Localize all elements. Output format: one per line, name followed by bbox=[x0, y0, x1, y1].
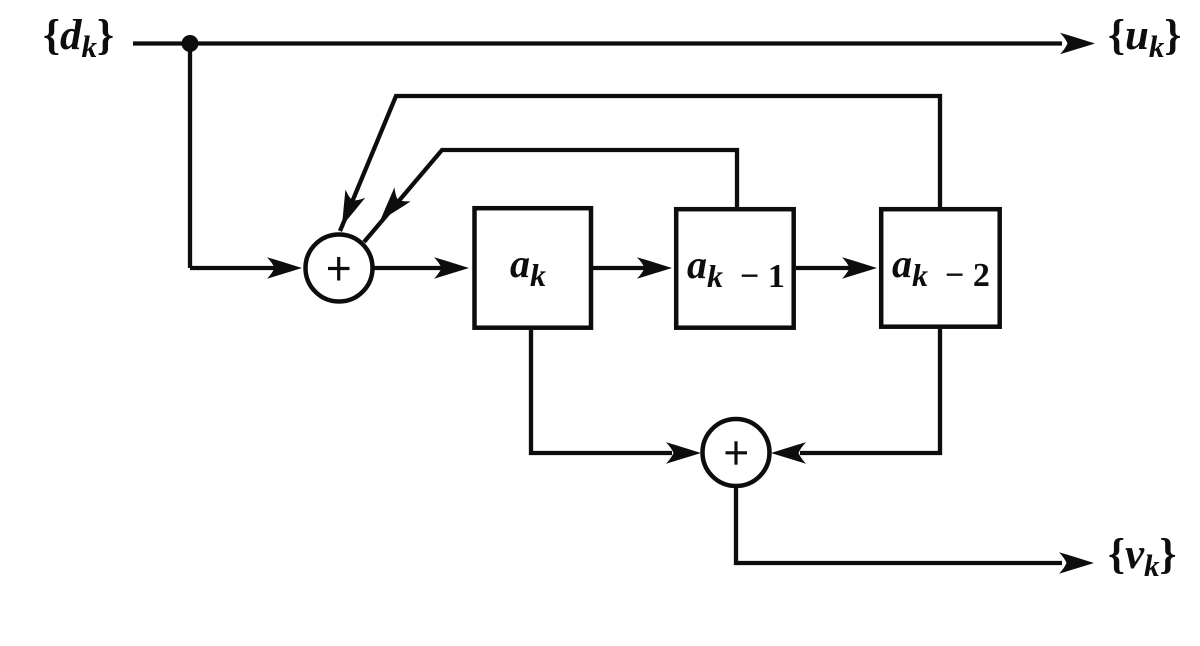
box a_k-2 bbox=[881, 209, 1000, 327]
svg-text:{dk}: {dk} bbox=[43, 12, 114, 64]
node: junction dot on d_k line bbox=[182, 35, 199, 52]
arrowhead: into box a_k bbox=[434, 257, 469, 278]
arrowhead: into box a_k-2 bbox=[842, 257, 877, 278]
wire: vertical drop from junction bbox=[188, 44, 192, 269]
wire: a_k to a_k-1 bbox=[593, 266, 650, 270]
arrowhead: to v_k bbox=[1059, 552, 1094, 573]
arrowhead: into box a_k-1 bbox=[637, 257, 672, 278]
arrowhead: into adder U2 left bbox=[666, 442, 701, 463]
adder U2 bbox=[703, 419, 770, 486]
wire: a_k bottom to adder U2 bbox=[531, 330, 672, 453]
box a_k-1 bbox=[676, 209, 794, 328]
svg-text:{vk}: {vk} bbox=[1108, 531, 1177, 583]
wire: adder U1 to box a_k bbox=[374, 266, 445, 270]
arrowhead: into adder U1 left bbox=[267, 257, 302, 278]
wire: a_k-2 bottom to adder U2 bbox=[800, 329, 940, 453]
wire: feedback from a_k-2 top to adder U1 bbox=[340, 96, 940, 231]
adder U1 bbox=[306, 235, 373, 302]
arrowhead: feedback 2 diagonal into adder U1 bbox=[332, 190, 365, 231]
wire: into adder U1 bbox=[190, 266, 278, 270]
wire: feedback from a_k-1 top to adder U1 bbox=[364, 150, 737, 242]
wire: a_k-1 to a_k-2 bbox=[796, 266, 855, 270]
wire: top line from d_k to u_k bbox=[133, 41, 1062, 45]
box a_k bbox=[475, 208, 592, 328]
arrowhead: into adder U2 right bbox=[771, 442, 806, 463]
svg-text:{uk}: {uk} bbox=[1108, 12, 1181, 64]
wire: adder U2 down to v_k output bbox=[736, 486, 1062, 563]
arrowhead: to u_k bbox=[1060, 33, 1095, 54]
arrowhead: feedback 1 diagonal into adder U1 bbox=[372, 187, 411, 228]
